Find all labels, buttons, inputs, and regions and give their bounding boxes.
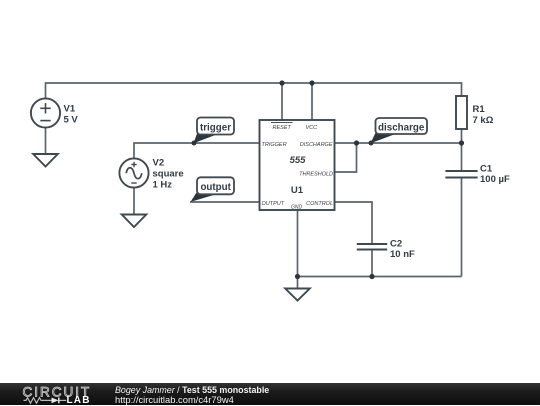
C2 label xyxy=(390,239,415,261)
wire CONTROL to C2 xyxy=(335,202,373,244)
svg-text:555: 555 xyxy=(290,155,307,166)
V2 label xyxy=(153,158,184,191)
V1 label xyxy=(64,104,79,126)
wire THRESHOLD jog xyxy=(335,143,357,172)
U1 part number 555 xyxy=(290,155,307,166)
footer title text xyxy=(115,385,269,406)
svg-text:10 nF: 10 nF xyxy=(390,249,415,260)
junction node at R1/C1 xyxy=(459,140,464,145)
node flag trigger xyxy=(192,118,235,146)
svg-text:1 Hz: 1 Hz xyxy=(153,180,173,191)
wire top rail from V1 to R1 xyxy=(46,83,462,98)
svg-text:discharge: discharge xyxy=(378,123,425,134)
svg-text:DISCHARGE: DISCHARGE xyxy=(300,142,333,148)
svg-text:VCC: VCC xyxy=(305,125,317,131)
capacitor C2 xyxy=(357,244,387,250)
U1 pin label CONTROL xyxy=(306,201,333,207)
svg-text:C1: C1 xyxy=(480,164,493,175)
svg-text:V1: V1 xyxy=(64,104,76,115)
wire C2 to bottom rail xyxy=(371,250,373,277)
wire VCC lead xyxy=(311,83,313,120)
svg-text:RESET: RESET xyxy=(273,125,292,131)
svg-text:THRESHOLD: THRESHOLD xyxy=(299,171,333,177)
ground for V2 xyxy=(122,215,147,228)
U1 designator xyxy=(291,185,304,196)
svg-text:5 V: 5 V xyxy=(64,115,79,126)
svg-text:LAB: LAB xyxy=(67,395,91,405)
svg-text:R1: R1 xyxy=(473,104,486,115)
U1 pin label OUTPUT xyxy=(262,201,285,207)
op-amp U1 555 body xyxy=(260,120,335,210)
wire GND pin to ground xyxy=(297,210,299,289)
wire RESET lead xyxy=(281,83,283,120)
node flag discharge xyxy=(369,118,428,146)
U1 pin label TRIGGER xyxy=(262,142,287,148)
U1 pin label DISCHARGE xyxy=(300,142,333,148)
svg-text:CONTROL: CONTROL xyxy=(306,201,333,207)
ground main xyxy=(285,289,310,301)
junction node at RESET xyxy=(279,80,284,85)
wire C1 to bottom rail xyxy=(461,178,463,277)
svg-text:U1: U1 xyxy=(291,185,304,196)
svg-text:square: square xyxy=(153,169,184,180)
wire OUTPUT stub xyxy=(190,201,260,203)
wire R1 to C1 xyxy=(461,129,463,171)
U1 pin label GND xyxy=(291,205,303,211)
resistor R1 xyxy=(456,96,467,129)
junction node at C2 rail xyxy=(369,274,374,279)
svg-text:7 kΩ: 7 kΩ xyxy=(473,115,494,126)
svg-text:V2: V2 xyxy=(153,158,165,169)
svg-text:trigger: trigger xyxy=(200,123,231,134)
wire bottom rail xyxy=(298,276,462,278)
U1 pin label THRESHOLD xyxy=(299,171,333,177)
U1 pin label VCC xyxy=(305,125,317,131)
junction node discharge/threshold xyxy=(354,140,359,145)
U1 pin label RESET xyxy=(271,122,293,130)
svg-text:OUTPUT: OUTPUT xyxy=(262,201,285,207)
svg-text:output: output xyxy=(200,182,231,193)
wire V1 to ground xyxy=(45,128,47,154)
wire DISCHARGE to R1/C1 xyxy=(335,142,462,144)
voltage source V2 xyxy=(119,158,148,187)
node flag output xyxy=(191,177,235,202)
svg-text:100 µF: 100 µF xyxy=(480,174,510,185)
voltage source V1 xyxy=(31,98,60,127)
capacitor C1 xyxy=(445,171,477,178)
wire V2 to TRIGGER pin xyxy=(134,143,260,158)
ground for V1 xyxy=(33,154,58,167)
svg-text:C2: C2 xyxy=(390,239,402,250)
svg-text:TRIGGER: TRIGGER xyxy=(262,142,287,148)
junction node at VCC xyxy=(309,80,314,85)
junction node at GND rail xyxy=(295,274,300,279)
footer bar xyxy=(0,383,540,405)
svg-text:GND: GND xyxy=(291,205,303,211)
R1 label xyxy=(473,104,494,126)
wire V2 to ground xyxy=(133,188,135,215)
C1 label xyxy=(480,164,510,186)
CircuitLab logo xyxy=(0,383,100,405)
